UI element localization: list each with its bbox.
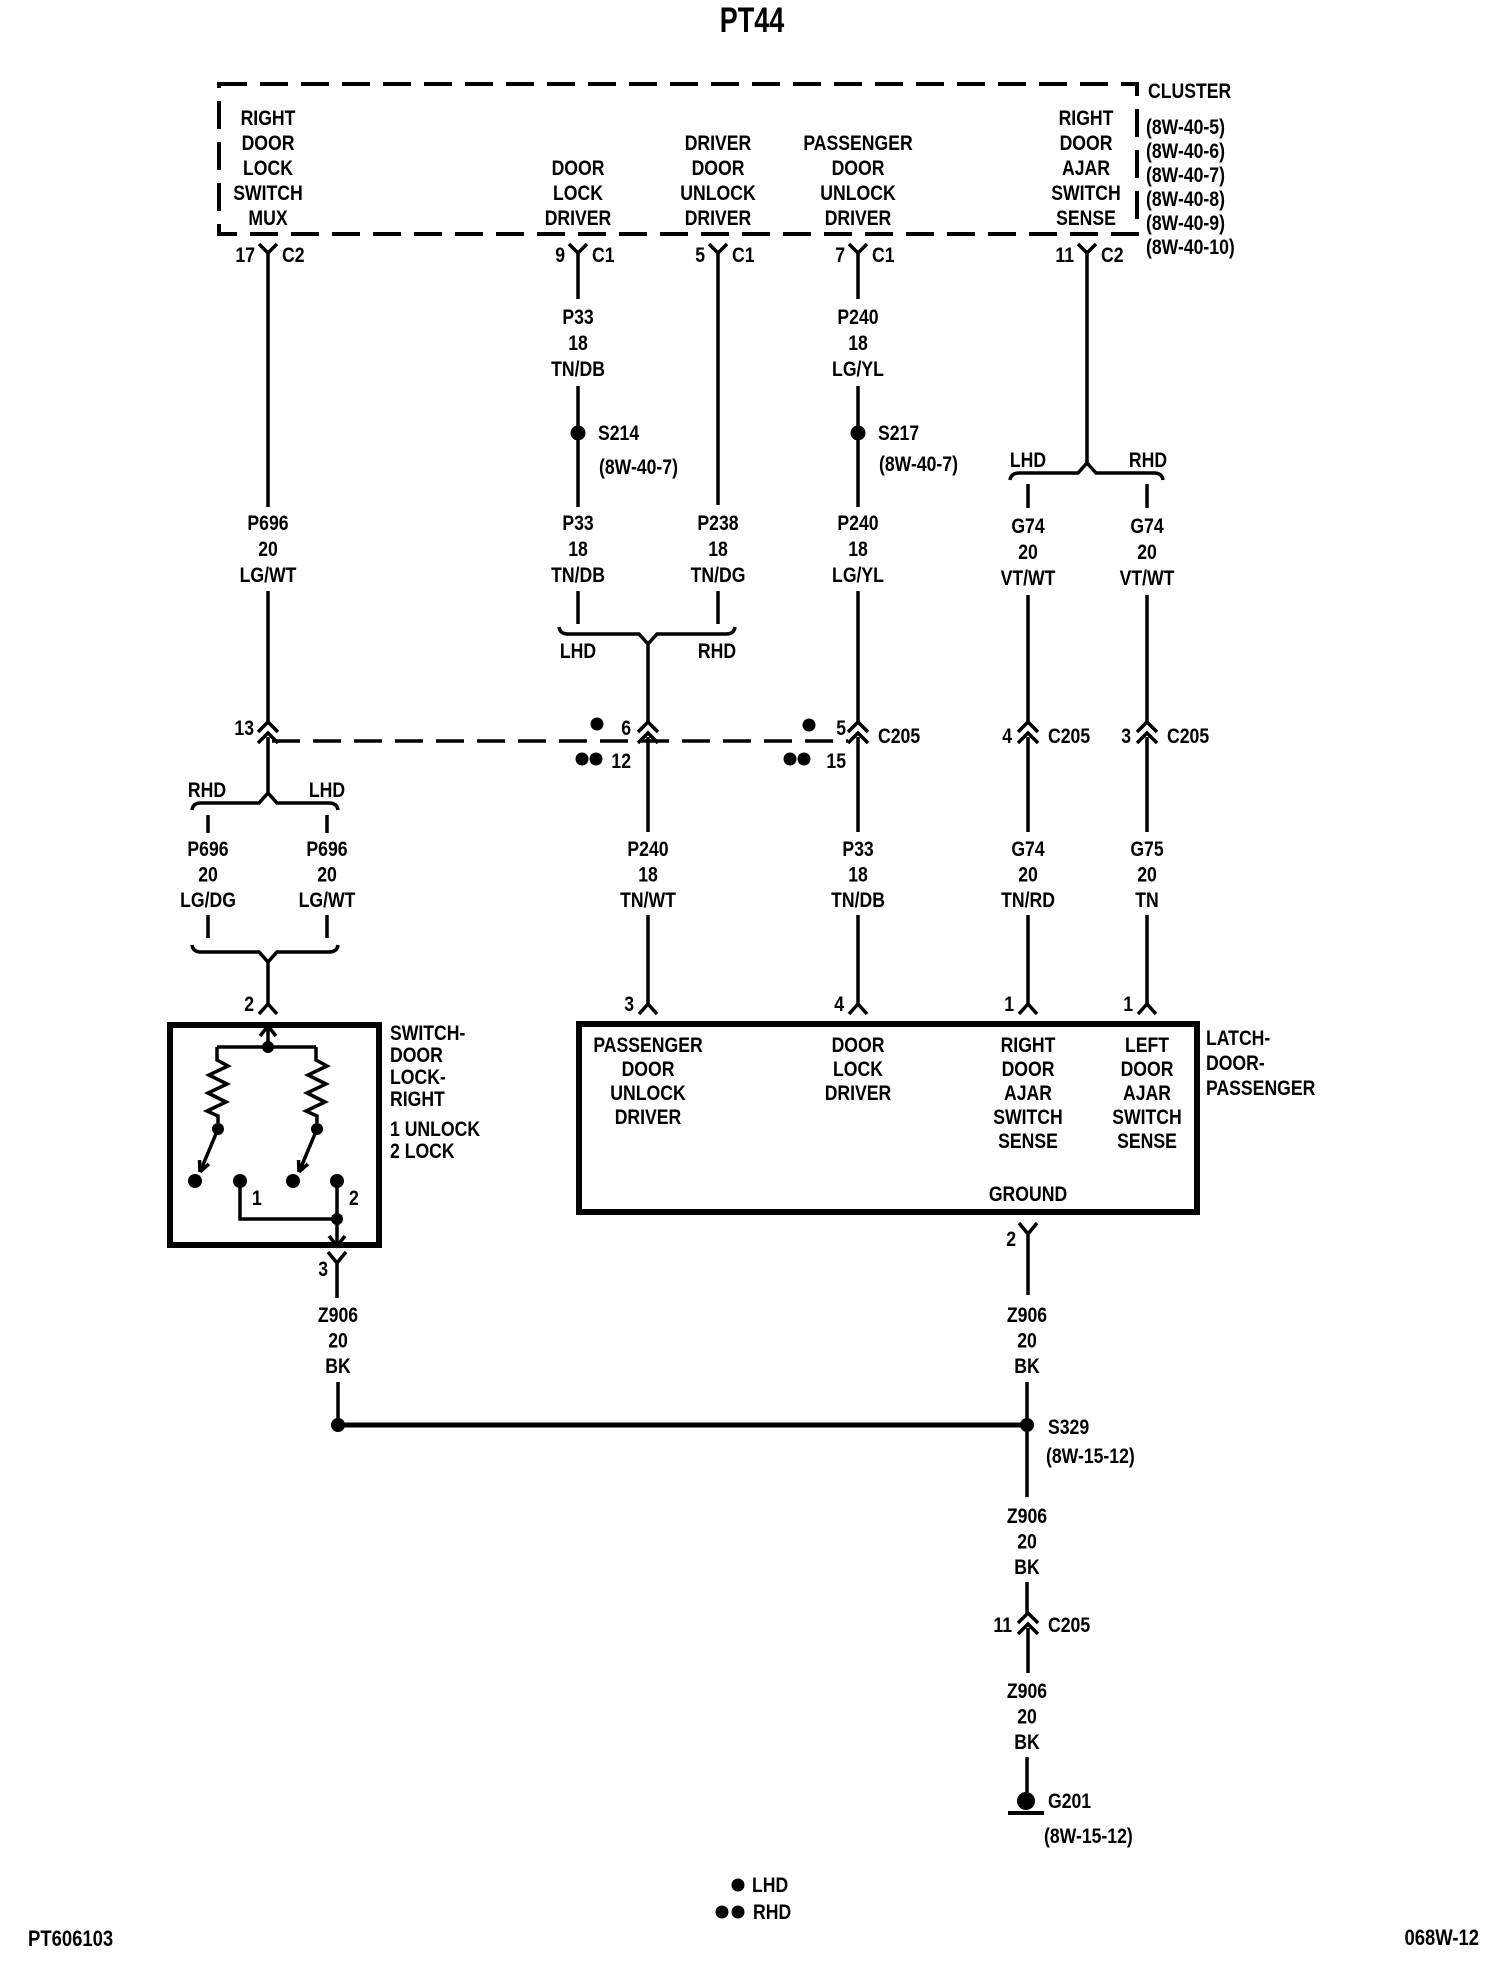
svg-text:(8W-15-12): (8W-15-12) [1046,1445,1135,1469]
svg-text:AJAR: AJAR [1004,1082,1052,1106]
svg-text:C1: C1 [592,244,615,268]
svg-text:PASSENGER: PASSENGER [1206,1077,1315,1101]
svg-text:P240: P240 [837,512,878,536]
svg-text:LOCK: LOCK [833,1058,883,1082]
svg-text:P238: P238 [697,512,738,536]
svg-text:VT/WT: VT/WT [1001,567,1056,591]
svg-text:2: 2 [349,1187,359,1211]
svg-text:LHD: LHD [752,1874,788,1898]
svg-text:CLUSTER: CLUSTER [1148,80,1231,104]
svg-text:SWITCH: SWITCH [1112,1106,1182,1130]
svg-text:18: 18 [848,863,868,887]
svg-text:LATCH-: LATCH- [1206,1027,1270,1051]
svg-text:DRIVER: DRIVER [685,207,752,231]
svg-text:RHD: RHD [1129,449,1167,473]
svg-text:20: 20 [317,863,337,887]
svg-text:DRIVER: DRIVER [615,1106,682,1130]
svg-text:LOCK: LOCK [553,182,603,206]
svg-text:AJAR: AJAR [1123,1082,1171,1106]
svg-text:G74: G74 [1130,515,1164,539]
svg-text:DRIVER: DRIVER [685,132,752,156]
svg-text:LG/DG: LG/DG [180,889,236,913]
svg-text:SENSE: SENSE [1117,1130,1177,1154]
svg-text:VT/WT: VT/WT [1120,567,1175,591]
svg-text:SENSE: SENSE [998,1130,1058,1154]
svg-text:2: 2 [244,993,254,1017]
svg-text:RIGHT: RIGHT [1059,107,1114,131]
svg-text:(8W-40-7): (8W-40-7) [599,456,678,480]
svg-text:1 UNLOCK: 1 UNLOCK [390,1118,480,1142]
svg-text:UNLOCK: UNLOCK [610,1082,685,1106]
svg-text:SWITCH-: SWITCH- [390,1022,465,1046]
svg-text:18: 18 [708,538,728,562]
svg-text:UNLOCK: UNLOCK [680,182,755,206]
svg-text:(8W-40-6): (8W-40-6) [1146,140,1225,164]
svg-text:(8W-40-5): (8W-40-5) [1146,116,1225,140]
svg-text:BK: BK [1014,1355,1039,1379]
svg-text:DRIVER: DRIVER [825,1082,892,1106]
svg-text:2: 2 [1006,1228,1016,1252]
svg-text:TN/DB: TN/DB [551,358,605,382]
svg-text:P33: P33 [842,838,874,862]
svg-text:9: 9 [555,244,565,268]
svg-text:RHD: RHD [698,640,736,664]
svg-text:LG/YL: LG/YL [832,564,884,588]
svg-text:LHD: LHD [1010,449,1046,473]
svg-text:C205: C205 [1167,725,1209,749]
svg-text:15: 15 [826,750,846,774]
svg-text:RHD: RHD [753,1901,791,1925]
svg-text:20: 20 [1018,541,1038,565]
svg-text:18: 18 [638,863,658,887]
svg-text:G201: G201 [1048,1790,1091,1814]
svg-text:DOOR: DOOR [1060,132,1113,156]
svg-text:C205: C205 [1048,725,1090,749]
svg-text:LHD: LHD [560,640,596,664]
svg-text:20: 20 [1137,541,1157,565]
svg-text:RIGHT: RIGHT [1001,1034,1056,1058]
svg-text:Z906: Z906 [1007,1680,1047,1704]
svg-text:LOCK-: LOCK- [390,1066,446,1090]
svg-text:RIGHT: RIGHT [241,107,296,131]
svg-text:LG/WT: LG/WT [299,889,356,913]
svg-text:1: 1 [1004,993,1014,1017]
svg-text:AJAR: AJAR [1062,157,1110,181]
svg-text:4: 4 [834,993,844,1017]
svg-text:DOOR: DOOR [242,132,295,156]
svg-text:TN/DB: TN/DB [551,564,605,588]
svg-text:(8W-15-12): (8W-15-12) [1044,1825,1133,1849]
svg-text:P240: P240 [627,838,668,862]
svg-text:DRIVER: DRIVER [825,207,892,231]
svg-text:12: 12 [611,750,631,774]
svg-text:C205: C205 [878,725,920,749]
svg-text:(8W-40-8): (8W-40-8) [1146,188,1225,212]
svg-text:P696: P696 [247,512,288,536]
svg-text:11: 11 [993,1614,1012,1638]
svg-text:P33: P33 [562,306,594,330]
svg-text:DOOR: DOOR [390,1044,443,1068]
svg-text:2 LOCK: 2 LOCK [390,1140,455,1164]
svg-text:(8W-40-9): (8W-40-9) [1146,212,1225,236]
svg-text:SWITCH: SWITCH [1051,182,1121,206]
svg-text:P33: P33 [562,512,594,536]
svg-text:7: 7 [835,244,845,268]
svg-text:17: 17 [235,244,255,268]
svg-text:BK: BK [325,1355,350,1379]
svg-text:11: 11 [1055,244,1074,268]
svg-text:TN/WT: TN/WT [620,889,676,913]
svg-text:DRIVER: DRIVER [545,207,612,231]
svg-text:1: 1 [252,1187,262,1211]
svg-text:P696: P696 [306,838,347,862]
svg-text:(8W-40-7): (8W-40-7) [879,453,958,477]
svg-text:LG/WT: LG/WT [240,564,297,588]
svg-text:C1: C1 [732,244,755,268]
svg-text:068W-12: 068W-12 [1404,1927,1479,1951]
svg-text:DOOR: DOOR [1121,1058,1174,1082]
svg-text:TN/RD: TN/RD [1001,889,1055,913]
svg-text:G74: G74 [1011,838,1045,862]
svg-text:MUX: MUX [248,207,287,231]
svg-text:20: 20 [198,863,218,887]
svg-text:DOOR: DOOR [1002,1058,1055,1082]
svg-text:P240: P240 [837,306,878,330]
svg-text:DOOR: DOOR [552,157,605,181]
svg-text:18: 18 [568,332,588,356]
svg-text:20: 20 [1017,1530,1037,1554]
svg-text:DOOR: DOOR [692,157,745,181]
svg-text:18: 18 [848,332,868,356]
svg-text:DOOR-: DOOR- [1206,1052,1265,1076]
svg-text:5: 5 [836,717,846,741]
svg-text:20: 20 [1018,863,1038,887]
svg-text:C2: C2 [1101,244,1124,268]
svg-text:PASSENGER: PASSENGER [593,1034,702,1058]
svg-text:LEFT: LEFT [1125,1034,1169,1058]
svg-text:Z906: Z906 [1007,1304,1047,1328]
svg-text:20: 20 [328,1329,348,1353]
svg-text:C1: C1 [872,244,895,268]
svg-text:PT44: PT44 [720,1,785,40]
svg-text:DOOR: DOOR [622,1058,675,1082]
svg-text:TN/DB: TN/DB [831,889,885,913]
svg-text:RIGHT: RIGHT [390,1088,445,1112]
svg-text:S329: S329 [1048,1416,1089,1440]
svg-text:5: 5 [695,244,705,268]
svg-text:13: 13 [234,717,254,741]
svg-text:PT606103: PT606103 [28,1928,113,1952]
svg-text:DOOR: DOOR [832,157,885,181]
svg-text:(8W-40-10): (8W-40-10) [1146,236,1235,260]
svg-text:6: 6 [621,717,631,741]
svg-text:3: 3 [624,993,634,1017]
svg-text:BK: BK [1014,1731,1039,1755]
svg-text:LOCK: LOCK [243,157,293,181]
svg-text:Z906: Z906 [1007,1505,1047,1529]
svg-text:RHD: RHD [188,779,226,803]
svg-text:18: 18 [848,538,868,562]
svg-text:PASSENGER: PASSENGER [803,132,912,156]
svg-text:C205: C205 [1048,1614,1090,1638]
svg-text:20: 20 [1017,1705,1037,1729]
svg-text:Z906: Z906 [318,1304,358,1328]
svg-text:P696: P696 [187,838,228,862]
svg-text:SWITCH: SWITCH [233,182,303,206]
svg-text:G75: G75 [1130,838,1164,862]
svg-text:S214: S214 [598,422,639,446]
svg-text:LHD: LHD [309,779,345,803]
svg-text:20: 20 [258,538,278,562]
svg-text:20: 20 [1137,863,1157,887]
svg-text:BK: BK [1014,1556,1039,1580]
svg-text:GROUND: GROUND [989,1183,1067,1207]
svg-text:18: 18 [568,538,588,562]
svg-text:LG/YL: LG/YL [832,358,884,382]
svg-text:TN: TN [1135,889,1158,913]
svg-text:(8W-40-7): (8W-40-7) [1146,164,1225,188]
svg-text:SWITCH: SWITCH [993,1106,1063,1130]
svg-text:SENSE: SENSE [1056,207,1116,231]
svg-text:G74: G74 [1011,515,1045,539]
svg-text:20: 20 [1017,1329,1037,1353]
svg-text:UNLOCK: UNLOCK [820,182,895,206]
svg-text:TN/DG: TN/DG [691,564,746,588]
svg-text:4: 4 [1002,725,1012,749]
svg-text:DOOR: DOOR [832,1034,885,1058]
svg-text:S217: S217 [878,422,919,446]
svg-text:C2: C2 [282,244,305,268]
svg-text:3: 3 [1121,725,1131,749]
svg-text:3: 3 [318,1258,328,1282]
svg-text:1: 1 [1123,993,1133,1017]
